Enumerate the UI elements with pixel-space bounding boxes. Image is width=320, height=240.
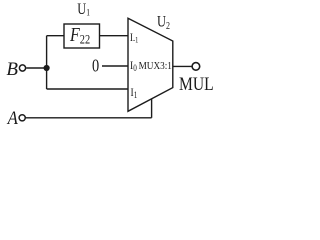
svg-text:MUL: MUL (179, 74, 214, 95)
svg-text:I0: I0 (130, 59, 137, 73)
svg-text:0: 0 (92, 55, 99, 76)
svg-text:I1: I1 (131, 86, 138, 100)
svg-text:U2: U2 (157, 13, 170, 31)
svg-text:F22: F22 (69, 23, 90, 46)
svg-text:B: B (6, 59, 18, 80)
svg-text:U1: U1 (77, 1, 90, 19)
svg-text:A: A (7, 107, 18, 128)
svg-text:I-1: I-1 (130, 32, 139, 44)
svg-text:MUX3:1: MUX3:1 (139, 60, 172, 72)
